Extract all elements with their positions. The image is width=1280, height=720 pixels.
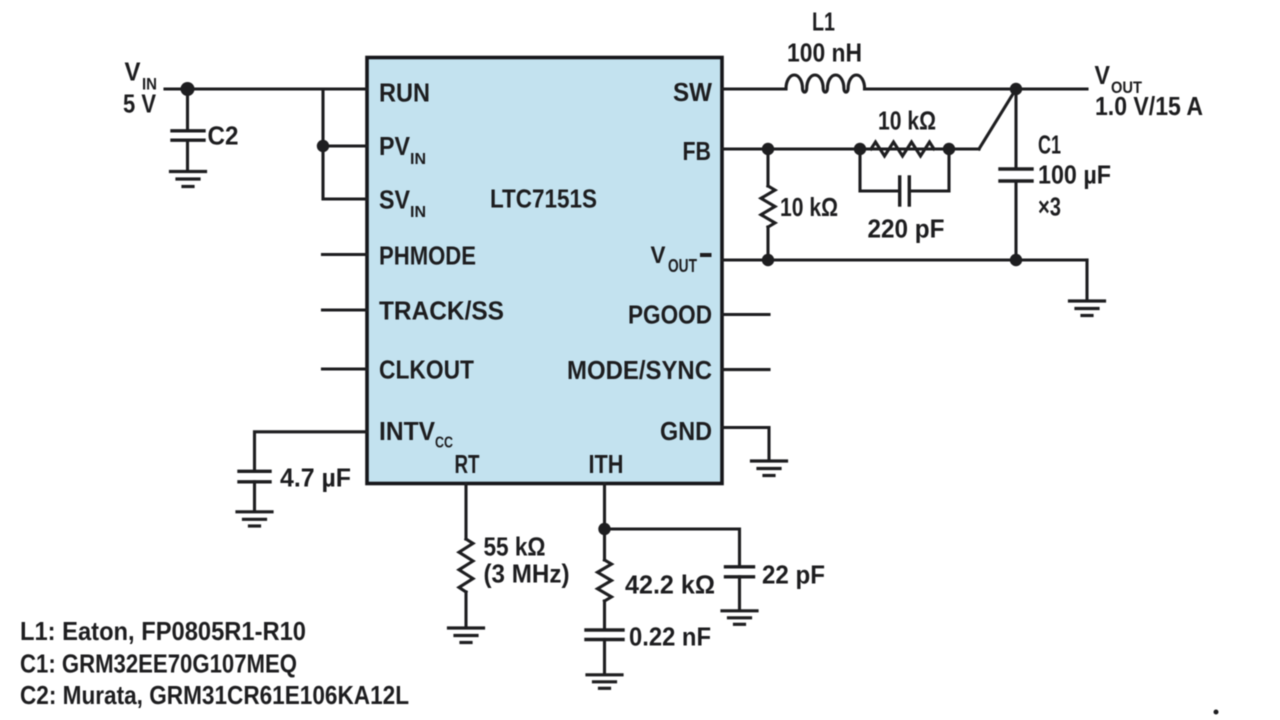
svg-text:10 kΩ: 10 kΩ: [878, 106, 936, 136]
capacitor 4.7uF: [239, 471, 270, 510]
wire PVIN stub: [323, 144, 367, 147]
junction VOUT- / C1: [1010, 254, 1022, 266]
svg-text:IN: IN: [410, 151, 426, 168]
wire VOUT- pin: [722, 258, 1087, 261]
svg-text:L1: L1: [812, 7, 835, 37]
wire 42.2k to 0.22nF: [603, 601, 606, 630]
junction FB / 10k-220pF left: [854, 143, 866, 155]
ground (output): [1070, 301, 1105, 316]
svg-text:C1: C1: [1038, 130, 1061, 160]
junction FB / R-divider: [762, 143, 774, 155]
svg-text:42.2 kΩ: 42.2 kΩ: [625, 570, 715, 600]
ground (RT): [449, 628, 484, 643]
svg-text:TRACK/SS: TRACK/SS: [379, 296, 504, 326]
svg-text:1.0 V/15 A: 1.0 V/15 A: [1095, 91, 1203, 121]
junction ITH node: [598, 523, 610, 535]
wire RT pin down: [464, 484, 467, 540]
svg-text:22 pF: 22 pF: [762, 560, 825, 590]
wire FB pin: [722, 147, 979, 150]
resistor 10k feedback (horizontal): [871, 142, 934, 156]
svg-text:FB: FB: [683, 136, 712, 166]
ground (ITH branch): [587, 675, 622, 689]
resistor 42.2k: [598, 560, 612, 601]
svg-text:GND: GND: [660, 416, 712, 446]
svg-text:SV: SV: [379, 185, 411, 215]
svg-text:PGOOD: PGOOD: [628, 300, 712, 330]
svg-text:10 kΩ: 10 kΩ: [780, 192, 838, 222]
wire ITH pin down: [603, 484, 606, 561]
wire VIN bus vertical to SVIN: [323, 89, 367, 199]
capacitor C1: [1000, 89, 1032, 260]
wire MODE/SYNC stub: [722, 368, 769, 371]
wire VOUT- to right ground: [1085, 260, 1088, 299]
ground (4.7uF): [237, 512, 272, 526]
svg-text:(3 MHz): (3 MHz): [484, 559, 570, 589]
svg-text:MODE/SYNC: MODE/SYNC: [567, 355, 712, 385]
junction FB / 10k-220pF right: [943, 143, 955, 155]
svg-text:0.22 nF: 0.22 nF: [629, 622, 711, 652]
svg-text:RT: RT: [455, 449, 480, 479]
svg-text:100 µF: 100 µF: [1038, 160, 1111, 190]
junction VOUT- / 10k: [762, 254, 774, 266]
ground (22pF): [722, 611, 757, 625]
svg-text:IN: IN: [410, 204, 426, 221]
svg-text:C1: GRM32EE70G107MEQ: C1: GRM32EE70G107MEQ: [20, 649, 297, 679]
junction PVIN: [317, 140, 329, 152]
svg-text:PV: PV: [379, 131, 411, 161]
ground (GND pin): [752, 461, 787, 476]
capacitor 22pF: [726, 567, 754, 609]
wire SW pin to L1: [722, 87, 786, 90]
svg-text:C2: Murata, GRM31CR61E106KA12L: C2: Murata, GRM31CR61E106KA12L: [20, 680, 409, 710]
svg-text:4.7 µF: 4.7 µF: [280, 463, 351, 493]
wire PHMODE stub: [323, 253, 368, 256]
junction VOUT node: [1010, 83, 1022, 95]
junction node VIN / C2: [181, 82, 195, 96]
svg-text:OUT: OUT: [668, 256, 697, 276]
resistor 55k: [459, 539, 473, 592]
wire INTVCC to 4.7uF: [255, 432, 368, 471]
wire 55k to ground: [464, 592, 467, 626]
svg-text:5 V: 5 V: [123, 89, 157, 119]
svg-text:INTV: INTV: [379, 416, 436, 446]
svg-text:SW: SW: [673, 77, 712, 107]
svg-text:100 nH: 100 nH: [787, 38, 862, 68]
svg-text:L1: Eaton, FP0805R1-R10: L1: Eaton, FP0805R1-R10: [20, 616, 306, 646]
IC U1 LTC7151S body: [367, 58, 722, 484]
svg-text:220 pF: 220 pF: [868, 214, 945, 244]
wire PGOOD stub: [722, 313, 769, 316]
svg-text:V: V: [1095, 60, 1111, 90]
resistor 10k lower (vertical): [761, 149, 775, 260]
svg-text:55 kΩ: 55 kΩ: [484, 532, 546, 562]
wire ITH node to 22pF: [605, 529, 740, 566]
svg-text:CLKOUT: CLKOUT: [379, 355, 474, 385]
wire TRACK/SS stub: [323, 308, 368, 311]
svg-text:V: V: [651, 242, 666, 269]
capacitor 0.22nF: [586, 630, 623, 673]
ground (C2): [171, 172, 206, 187]
svg-text:C2: C2: [208, 121, 239, 151]
svg-text:PHMODE: PHMODE: [379, 241, 476, 271]
inductor L1: [786, 75, 865, 92]
wire CLKOUT stub: [323, 367, 368, 370]
wire GND pin to ground: [722, 428, 769, 460]
svg-text:LTC7151S: LTC7151S: [490, 184, 597, 214]
svg-text:RUN: RUN: [379, 78, 430, 108]
speck artifact bottom right: [1214, 710, 1219, 715]
svg-text:ITH: ITH: [589, 449, 624, 479]
wire diagonal FB to VOUT node: [979, 89, 1016, 149]
svg-text:CC: CC: [435, 435, 453, 452]
svg-text:V: V: [125, 57, 142, 87]
capacitor 220pF loop: [860, 149, 949, 205]
svg-text:×3: ×3: [1038, 192, 1061, 222]
capacitor C2: [172, 89, 204, 170]
wire VIN to RUN pin: [165, 87, 367, 90]
wire L1 to VOUT node: [865, 87, 1088, 90]
